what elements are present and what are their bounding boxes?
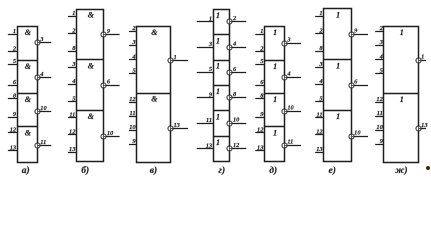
output pin 4 with inversion circle of gate DD1.2 [35,71,51,80]
DD7 section divider 1 [384,93,419,95]
svg-text:10: 10 [107,130,114,137]
svg-text:9: 9 [354,28,358,35]
svg-text:1: 1 [216,87,220,96]
output pin 10 with inversion circle of gate DD6.3 [349,130,368,139]
svg-text:1: 1 [173,54,176,61]
input pin 2 wire of gate DD6.1 [315,27,323,34]
svg-text:3: 3 [208,41,213,48]
input pin 11 wire of gate DD6.3 [315,111,323,118]
input pin 1 wire of gate DD1.1 [8,28,18,35]
DD5 section divider 2 [265,93,285,95]
svg-text:1: 1 [216,113,220,122]
input pin 12 wire of gate DD5.4 [255,126,264,133]
IC DD2 body: DD2 triple 3-input NAND (К561ЛА9/CD4023) [77,10,104,162]
svg-text:12: 12 [129,96,136,103]
svg-text:13: 13 [10,144,17,151]
output pin 10 with inversion circle of gate DD4.5 [227,117,246,126]
input pin 8 wire of gate DD2.1 [68,45,77,52]
DD4 section divider 4 [214,110,230,112]
output pin 9 with inversion circle of gate DD2.1 [101,28,120,37]
IC DD4 body: DD4 hex inverter (К561ЛН2/CD4069) [214,10,230,162]
output pin 13 with inversion circle of gate DD7.2 [416,122,428,131]
output pin 8 with inversion circle of gate DD4.4 [227,91,246,100]
input pin 6 wire of gate DD5.2 [255,79,264,86]
input pin 9 wire of gate DD1.3 [8,111,18,118]
svg-text:1: 1 [216,11,220,20]
svg-text:1: 1 [273,95,277,104]
input pin 3 wire of gate DD3.1 [129,39,137,46]
input pin 2 wire of gate DD1.1 [8,45,18,52]
svg-text:10: 10 [233,117,240,124]
input pin 2 wire of gate DD3.1 [129,25,137,32]
input pin 2 wire of gate DD5.1 [255,45,264,52]
svg-text:&: & [88,112,95,121]
input pin 4 wire of gate DD6.2 [315,78,323,85]
DD4 section divider 3 [214,85,230,87]
svg-text:11: 11 [317,111,323,118]
output pin 9 with inversion circle of gate DD6.1 [349,28,368,37]
svg-text:1: 1 [273,128,277,137]
svg-text:10: 10 [129,124,136,131]
input pin 12 wire of gate DD6.3 [315,129,323,136]
input pin 4 wire of gate DD7.1 [375,54,383,61]
svg-text:1: 1 [336,61,340,70]
svg-text:&: & [88,11,95,20]
svg-text:10: 10 [287,105,294,112]
output pin 2 with inversion circle of gate DD4.1 [227,15,246,24]
svg-text:1: 1 [260,28,263,35]
DD4 section divider 2 [214,60,230,62]
svg-text:1: 1 [72,10,75,17]
svg-text:6: 6 [13,79,17,86]
output pin 1 with inversion circle of gate DD3.1 [168,54,188,63]
svg-text:а): а) [22,165,30,176]
input pin 3 wire of gate DD6.2 [315,61,323,68]
DD5 section divider 3 [265,126,285,128]
input pin 13 wire of gate DD4.6 [197,143,214,150]
DD6 section divider 1 [324,59,352,61]
input pin 13 wire of gate DD1.4 [8,144,18,151]
input pin 9 wire of gate DD3.2 [129,138,137,145]
input pin 5 wire of gate DD5.2 [255,58,264,65]
output pin 10 with inversion circle of gate DD5.3 [282,105,301,114]
svg-text:4: 4 [71,78,75,85]
svg-text:12: 12 [69,129,76,136]
svg-text:4: 4 [39,71,43,78]
svg-text:е): е) [328,165,335,176]
scan speck artifact near bottom-right [426,166,430,170]
svg-text:&: & [88,61,95,70]
DD2 section divider 2 [77,110,104,112]
DD1 section divider 3 [18,126,38,128]
input pin 12 wire of gate DD2.3 [68,129,77,136]
svg-text:12: 12 [257,126,264,133]
svg-text:г): г) [218,165,225,176]
svg-text:1: 1 [216,62,220,71]
svg-text:6: 6 [233,66,237,73]
IC DD6 body: DD6 triple 3-input NOR (К561ЛЕ10/CD4025) [324,9,352,162]
svg-text:6: 6 [260,79,264,86]
input pin 11 wire of gate DD4.5 [197,117,214,124]
output pin 6 with inversion circle of gate DD4.3 [227,66,246,75]
input pin 11 wire of gate DD2.3 [68,111,77,118]
svg-text:12: 12 [376,96,383,103]
DD6 section divider 2 [324,110,352,112]
input pin 9 wire of gate DD5.3 [255,111,264,118]
svg-text:4: 4 [131,54,135,61]
svg-text:&: & [25,28,32,37]
svg-text:3: 3 [318,61,323,68]
input pin 5 wire of gate DD3.1 [129,67,137,74]
svg-text:13: 13 [69,146,76,153]
svg-text:1: 1 [216,36,220,45]
svg-text:&: & [25,62,32,71]
input pin 11 wire of gate DD7.2 [375,110,383,117]
input pin 13 wire of gate DD5.4 [255,144,264,151]
DD4 section divider 1 [214,34,230,36]
svg-text:ж): ж) [395,165,407,176]
DD1 section divider 2 [18,93,38,95]
DD5 section divider 1 [265,60,285,62]
output pin 11 with inversion circle of gate DD1.4 [35,139,51,148]
svg-text:11: 11 [40,139,46,146]
output pin 3 with inversion circle of gate DD5.1 [282,36,301,46]
svg-text:12: 12 [316,129,323,136]
output pin 11 with inversion circle of gate DD5.4 [282,139,301,148]
IC DD7 body: DD7 dual 4-input NOR (К561ЛЕ6/CD4002) [384,27,419,163]
svg-text:1: 1 [336,10,340,19]
input pin 1 wire of gate DD4.1 [197,15,214,22]
svg-text:9: 9 [13,111,17,118]
input pin 2 wire of gate DD2.1 [68,27,77,34]
svg-text:10: 10 [376,124,383,131]
IC DD1 body: DD1 quad 2-input NAND (К561ЛА7/CD4011) [18,27,38,163]
svg-text:9: 9 [107,28,111,35]
input pin 13 wire of gate DD6.3 [315,146,323,153]
input pin 5 wire of gate DD7.1 [375,67,383,74]
input pin 10 wire of gate DD7.2 [375,124,383,131]
input pin 3 wire of gate DD7.1 [375,39,383,46]
svg-text:6: 6 [107,79,111,86]
svg-text:1: 1 [209,15,212,22]
svg-text:11: 11 [69,111,75,118]
svg-text:10: 10 [354,130,361,137]
svg-text:б): б) [81,165,89,176]
output pin 12 with inversion circle of gate DD4.6 [227,142,246,151]
svg-text:1: 1 [216,138,220,147]
input pin 3 wire of gate DD2.2 [68,61,77,68]
svg-text:в): в) [150,165,157,176]
input pin 5 wire of gate DD2.2 [68,95,77,102]
svg-text:1: 1 [319,10,322,17]
svg-text:11: 11 [287,139,293,146]
input pin 9 wire of gate DD4.4 [197,92,214,99]
output pin 4 with inversion circle of gate DD4.2 [227,40,246,50]
svg-text:&: & [151,28,158,37]
svg-text:11: 11 [206,117,212,124]
svg-text:11: 11 [377,110,383,117]
svg-text:1: 1 [13,28,16,35]
svg-text:1: 1 [273,28,277,37]
svg-text:13: 13 [173,122,180,129]
input pin 8 wire of gate DD5.3 [255,92,264,99]
input pin 9 wire of gate DD7.2 [375,138,383,145]
svg-text:4: 4 [318,78,322,85]
DD3 section divider 1 [137,93,171,95]
svg-text:6: 6 [354,79,358,86]
input pin 5 wire of gate DD6.2 [315,95,323,102]
input pin 1 wire of gate DD6.1 [315,10,323,17]
input pin 4 wire of gate DD3.1 [129,54,137,61]
svg-text:1: 1 [400,95,404,104]
svg-text:9: 9 [260,111,264,118]
svg-text:&: & [151,95,158,104]
svg-text:3: 3 [286,36,291,43]
svg-text:12: 12 [10,126,17,133]
svg-text:13: 13 [316,146,323,153]
svg-text:12: 12 [233,142,240,149]
input pin 11 wire of gate DD3.2 [129,110,137,117]
output pin 6 with inversion circle of gate DD6.2 [349,79,368,88]
svg-text:1: 1 [400,28,404,37]
svg-text:&: & [25,95,32,104]
svg-text:13: 13 [257,144,264,151]
svg-text:д): д) [269,165,277,176]
output pin 13 with inversion circle of gate DD3.2 [168,122,188,131]
svg-text:&: & [25,128,32,137]
svg-text:11: 11 [130,110,136,117]
input pin 3 wire of gate DD4.2 [197,41,214,48]
svg-text:10: 10 [40,105,47,112]
input pin 2 wire of gate DD7.1 [375,25,383,32]
svg-text:4: 4 [232,40,236,47]
input pin 13 wire of gate DD2.3 [68,146,77,153]
IC DD3 body: DD3 dual 4-input NAND (К561ЛА8/CD4012) [137,27,171,163]
DD4 section divider 5 [214,136,230,138]
output pin 6 with inversion circle of gate DD2.2 [101,79,120,88]
input pin 4 wire of gate DD2.2 [68,78,77,85]
IC DD5 body: DD5 quad 2-input NOR (К561ЛЕ5/CD4001) [265,27,285,162]
DD1 section divider 1 [18,60,38,62]
DD2 section divider 1 [77,59,104,61]
output pin 3 with inversion circle of gate DD1.1 [35,36,51,45]
svg-text:13: 13 [421,122,428,129]
svg-text:8: 8 [72,45,76,52]
input pin 1 wire of gate DD5.1 [255,28,264,35]
output pin 4 with inversion circle of gate DD5.2 [282,71,301,80]
input pin 8 wire of gate DD1.3 [8,92,18,99]
svg-text:1: 1 [336,112,340,121]
input pin 1 wire of gate DD2.1 [68,10,77,17]
svg-text:4: 4 [286,71,290,78]
input pin 5 wire of gate DD1.2 [8,58,18,65]
input pin 6 wire of gate DD1.2 [8,79,18,86]
input pin 12 wire of gate DD1.4 [8,126,18,133]
svg-text:1: 1 [421,53,424,60]
svg-text:13: 13 [206,143,213,150]
output pin 10 with inversion circle of gate DD1.3 [35,105,51,114]
svg-text:4: 4 [379,54,383,61]
input pin 8 wire of gate DD6.1 [315,45,323,52]
svg-text:1: 1 [273,62,277,71]
output pin 10 with inversion circle of gate DD2.3 [101,130,120,139]
input pin 10 wire of gate DD3.2 [129,124,137,131]
output pin 1 with inversion circle of gate DD7.1 [416,53,426,63]
input pin 12 wire of gate DD3.2 [129,96,137,103]
input pin 5 wire of gate DD4.3 [197,66,214,73]
svg-text:3: 3 [71,61,76,68]
input pin 12 wire of gate DD7.2 [375,96,383,103]
